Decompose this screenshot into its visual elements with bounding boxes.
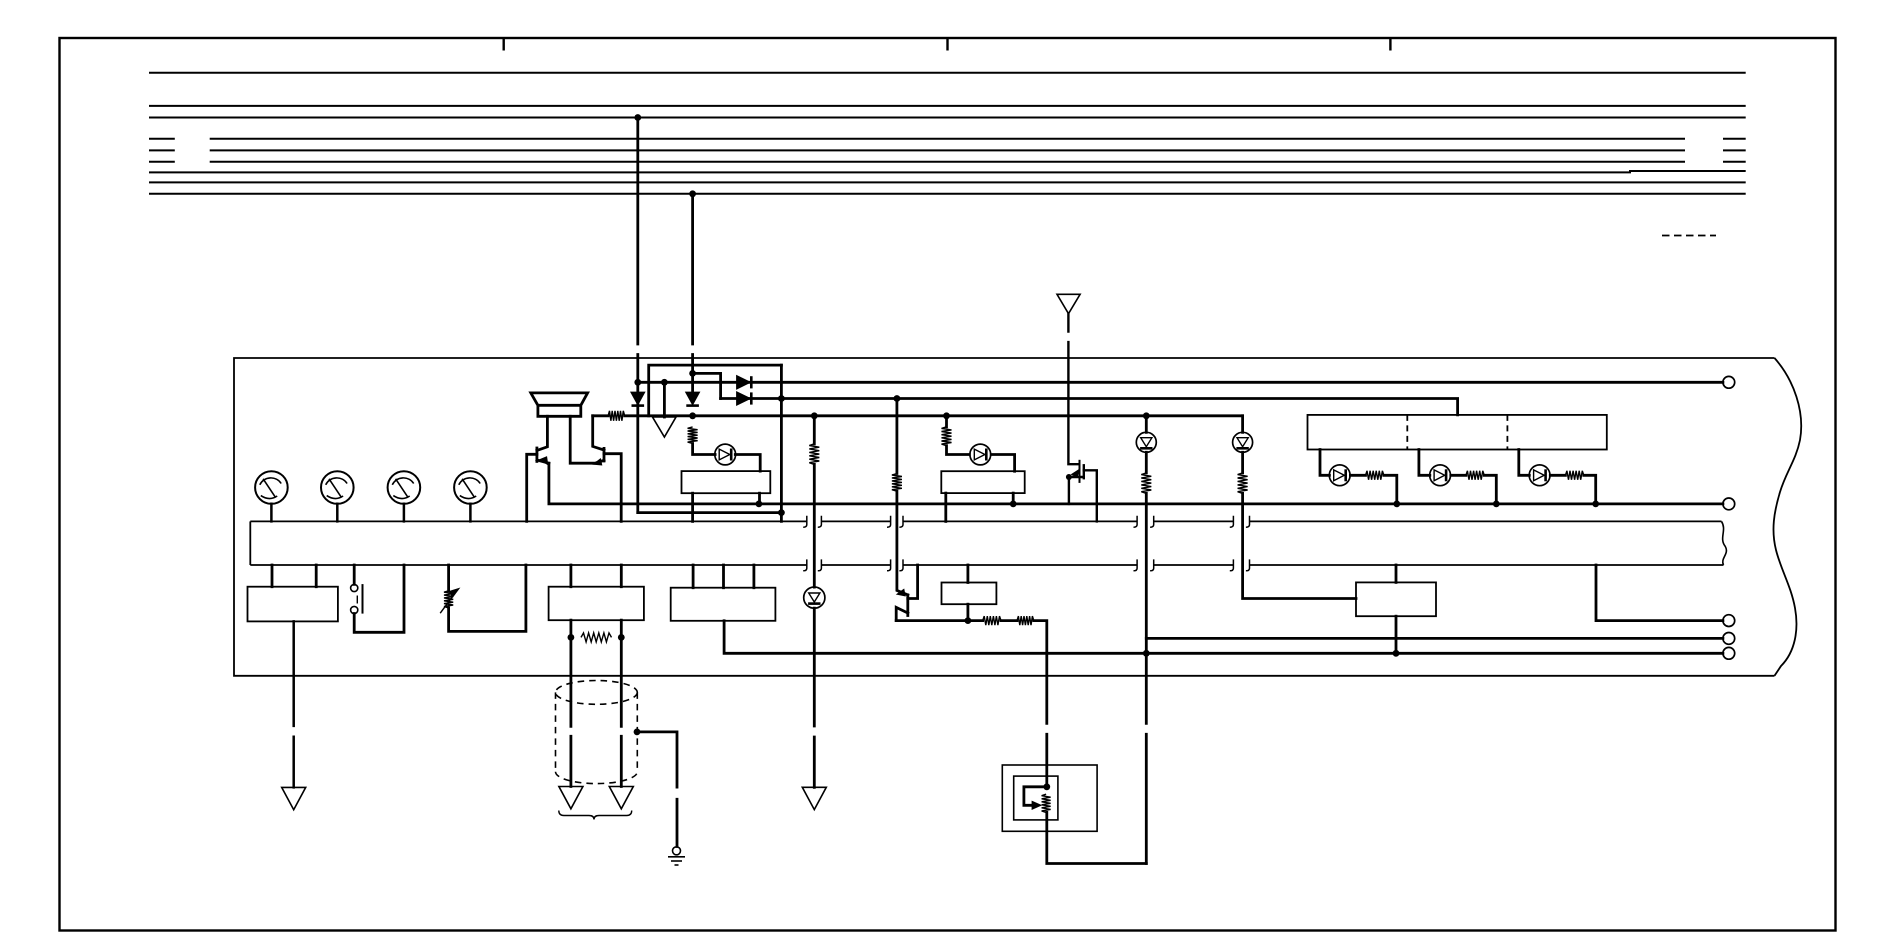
resistor R5 (opto) <box>942 427 952 446</box>
wire box U3 stem top <box>967 565 970 583</box>
wire lamp 1 out <box>1350 475 1396 504</box>
wire drop from bus line 3 <box>636 118 639 513</box>
junction B net 1 <box>778 395 785 402</box>
wire lamp 3 out <box>1550 475 1595 504</box>
wire net B to lamp box <box>721 399 1458 415</box>
wire box1 stems <box>272 565 316 587</box>
wire R5 branch <box>947 416 970 455</box>
wire Q3 base to bus <box>908 565 918 599</box>
warning LED W2 <box>1233 432 1253 452</box>
connector pin 1 <box>1723 376 1735 388</box>
bus bar break marks <box>803 516 1249 571</box>
junction on bus line 9 <box>689 190 696 197</box>
wire box U1 stem right <box>758 493 761 504</box>
wire sound ground bus <box>549 463 1723 504</box>
fold tick 1 <box>503 38 505 51</box>
antenna symbol <box>1057 294 1080 313</box>
wire lamp cell stem 3 <box>1519 450 1530 476</box>
box B1 <box>248 587 338 622</box>
gauge G1 <box>255 471 288 504</box>
wire bus line 6 <box>149 161 1746 163</box>
junction A net 1 <box>689 412 696 419</box>
junction gnd bus 5 <box>1592 501 1599 508</box>
gauge assembly box outline <box>234 358 1775 676</box>
bus bar top edge <box>250 520 1721 522</box>
resistor R7 (warn2) <box>1238 473 1248 494</box>
wire box1 ground lead <box>292 621 295 787</box>
wire bus line 2 <box>149 105 1746 107</box>
junction cylinder tap <box>634 729 641 736</box>
wire inner loop right <box>780 365 783 521</box>
ground arrow (B1) <box>282 787 306 809</box>
lamp L1 <box>1329 465 1350 486</box>
wire lamp cell stem 1 <box>1320 450 1329 476</box>
lamp L3 <box>1529 465 1550 486</box>
junction V2 top <box>689 370 696 377</box>
diode D1 on IG drop <box>632 393 645 406</box>
wire fuel sense net <box>896 621 1047 787</box>
resistor R3 (buzzer) <box>809 444 819 465</box>
wire warning branch 1 <box>1145 416 1148 864</box>
speaker horn <box>531 393 588 416</box>
junction ground stub <box>661 379 668 386</box>
ground arrow (cyl L) <box>559 787 583 809</box>
wire bus line 1 <box>149 72 1746 74</box>
dashed cylinder (gauge coil) <box>556 681 638 784</box>
junction conn5 net 2 <box>1393 650 1400 657</box>
connector pin 4 <box>1723 633 1735 645</box>
wire box3 ground leads <box>571 620 621 786</box>
wire to connector 3 <box>1596 565 1723 621</box>
wire speaker right lead <box>570 416 604 463</box>
resistor R8 (fuel a) <box>983 616 1001 625</box>
Q4 arrow <box>1072 471 1078 477</box>
wire switch loop <box>354 565 404 632</box>
wire cylinder shield tap <box>637 732 677 847</box>
wire rheostat loop <box>449 565 526 631</box>
wire warning branch 2 <box>1243 416 1356 599</box>
box U1 <box>682 471 771 493</box>
wire lamp 2 out <box>1451 475 1497 504</box>
fold tick 2 <box>946 38 948 51</box>
box U3 <box>942 583 997 605</box>
wire Q2 collector <box>593 416 604 450</box>
junction sender top <box>1043 783 1050 790</box>
warning LED W1 <box>1136 432 1156 452</box>
fuel sender outer box <box>1002 765 1097 831</box>
wire box U2 stem left <box>944 493 947 521</box>
resistor R4 (Q3) <box>892 474 902 492</box>
connector pin 2 <box>1723 498 1735 510</box>
gauge G3 <box>388 471 421 504</box>
junction box3 left <box>568 634 575 641</box>
gauge assembly box torn right edge <box>1773 358 1801 676</box>
bus bar torn right end <box>1722 521 1727 565</box>
Q2 emitter arrow <box>595 460 602 465</box>
resistor R13 (lamp3) <box>1565 471 1583 480</box>
wire Q2 base to bus bar <box>604 454 621 522</box>
diode D5 horizontal upper <box>737 376 751 388</box>
lamp module divider 2 <box>1506 415 1508 450</box>
resistor R6 (warn1) <box>1141 473 1151 494</box>
wire Q3 collector branch <box>897 399 908 595</box>
box B4 <box>671 588 776 621</box>
switch S1 <box>351 584 363 614</box>
Q3 emitter arrow <box>898 590 905 595</box>
resistor R2 (osc) <box>688 427 698 444</box>
earth ground symbol <box>668 847 685 865</box>
wire box U1 stem left <box>691 493 694 521</box>
wire ground stub <box>663 382 666 417</box>
wire LED D4 to box U2 <box>991 455 1014 472</box>
junction on bus line 3 <box>634 114 641 121</box>
wire LED D3 to box <box>735 455 760 472</box>
wire bus line 8 <box>149 181 1746 183</box>
wire net A lamp feed <box>593 414 1243 417</box>
box lamp module <box>1308 415 1607 450</box>
resistor R14 (sender) <box>1042 794 1051 812</box>
resistor R12 (lamp2) <box>1466 471 1484 480</box>
wire bus line 7 <box>149 171 1746 172</box>
box B3 <box>549 587 644 621</box>
ground arrow (cyl R) <box>609 787 633 809</box>
junction conn5 net 1 <box>1143 650 1150 657</box>
transistor Q3 base bar <box>906 595 909 616</box>
connector pin 5 <box>1723 647 1735 659</box>
wire antenna lead <box>1068 314 1078 465</box>
ground arrow (mid) <box>653 417 677 437</box>
junction gnd bus 2 <box>1010 501 1017 508</box>
Q1 emitter arrow <box>541 457 547 463</box>
wire oscillator out <box>693 444 716 455</box>
junction A net 2 <box>811 412 818 419</box>
ground arrow (buzzer) <box>802 787 826 809</box>
LED D3 <box>715 444 736 465</box>
wire sender wiper <box>1024 787 1047 806</box>
wire speaker left lead <box>537 416 548 450</box>
bus bar bottom edge <box>250 564 1723 566</box>
junction box3 right <box>618 634 625 641</box>
wire to connector 4 <box>1146 637 1723 640</box>
wire box3 stems <box>571 565 621 587</box>
box U2 <box>941 471 1024 493</box>
junction IG net <box>634 379 641 386</box>
transistor Q1 base bar <box>536 448 539 461</box>
junction B net 2 <box>894 395 901 402</box>
wire bus line 9 <box>149 193 1746 195</box>
junction gnd bus 3 <box>1393 501 1400 508</box>
resistor R10 (box3) <box>581 633 612 642</box>
wire buzzer branch <box>813 416 816 788</box>
wire box U3 stem bottom <box>967 604 970 620</box>
LED D4 <box>970 444 991 465</box>
wire inner loop left <box>649 365 782 416</box>
rheostat VR1 <box>440 589 458 613</box>
junction A net 4 <box>1143 412 1150 419</box>
wire bus line 3 <box>149 117 1746 119</box>
fold tick 3 <box>1389 38 1391 51</box>
sender wiper arrow <box>1033 802 1041 809</box>
wire Q3 emitter <box>896 607 908 620</box>
junction lower link <box>778 509 785 516</box>
wire lower link <box>638 511 782 514</box>
wire box4 stems <box>693 565 754 588</box>
junction gnd bus 4 <box>1493 501 1500 508</box>
gauge stems <box>271 504 470 522</box>
wire box U4 stem top <box>1395 565 1398 582</box>
resistor R11 (lamp1) <box>1366 471 1384 480</box>
transistor Q2 base bar <box>603 448 606 461</box>
resistor R1 (speaker) <box>608 411 625 421</box>
junction fuel net <box>965 617 972 624</box>
box U4 <box>1356 582 1436 616</box>
diode D6 horizontal lower <box>737 392 751 404</box>
diode D2 on B drop <box>686 393 699 406</box>
wire to connector 5 <box>724 621 1723 654</box>
connector pin 3 <box>1723 615 1735 627</box>
transistor Q4 channel bar <box>1083 465 1085 478</box>
wire sender bottom <box>1047 812 1147 863</box>
fuel sender inner box <box>1014 776 1058 820</box>
lamp L2 <box>1430 465 1451 486</box>
wire bus line 5 <box>149 149 1746 151</box>
wire net IG to connector <box>638 381 1723 384</box>
gauge G4 <box>454 471 487 504</box>
wire Q1 emitter <box>537 460 549 463</box>
wire node to diode row <box>693 373 721 398</box>
junction A net 3 <box>943 412 950 419</box>
wire box U4 stem bottom <box>1395 616 1398 653</box>
buzzer BZ1 <box>804 587 825 608</box>
junction gnd bus 1 <box>756 501 763 508</box>
wire bus line 4 <box>149 138 1746 140</box>
transistor Q4 gate bar <box>1079 461 1081 482</box>
wire box U2 stem right <box>1012 493 1015 504</box>
junction Q4 source <box>1066 474 1072 480</box>
wire lamp cell stem 2 <box>1419 450 1430 476</box>
bus bar left edge <box>249 521 251 565</box>
resistor R9 (fuel b) <box>1017 616 1034 625</box>
gauge G2 <box>321 471 354 504</box>
brace under ground arrows <box>559 811 632 820</box>
lamp module divider 1 <box>1406 415 1408 450</box>
wire Q1 base to bus bar <box>527 454 537 521</box>
wire Q4 source <box>1069 477 1084 504</box>
wire Q4 drain <box>1084 470 1097 521</box>
wire drop from bus line 9 <box>691 194 694 393</box>
dashed wire stub top right <box>1662 235 1716 237</box>
